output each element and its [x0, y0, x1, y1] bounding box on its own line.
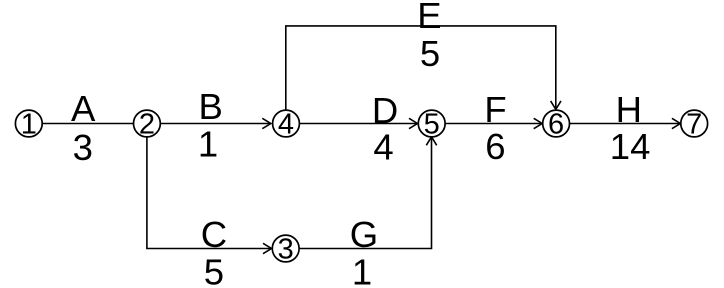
svg-text:H: H	[616, 89, 642, 130]
svg-text:B: B	[199, 86, 223, 127]
svg-text:1: 1	[21, 108, 37, 140]
svg-text:6: 6	[485, 126, 505, 167]
svg-text:1: 1	[198, 124, 218, 165]
svg-text:1: 1	[352, 252, 372, 288]
svg-text:7: 7	[686, 108, 702, 140]
svg-text:D: D	[372, 90, 398, 131]
svg-text:A: A	[71, 88, 96, 129]
svg-text:E: E	[417, 0, 441, 36]
svg-text:G: G	[350, 214, 378, 255]
svg-text:6: 6	[548, 108, 564, 140]
svg-text:3: 3	[73, 127, 93, 168]
svg-text:F: F	[484, 89, 506, 130]
svg-text:C: C	[201, 214, 227, 255]
svg-text:5: 5	[204, 252, 224, 288]
svg-text:5: 5	[424, 108, 440, 140]
svg-text:3: 3	[278, 233, 294, 265]
svg-text:4: 4	[373, 127, 393, 168]
svg-text:5: 5	[420, 33, 440, 74]
svg-text:14: 14	[610, 126, 651, 167]
svg-text:4: 4	[278, 108, 294, 140]
svg-text:2: 2	[139, 108, 155, 140]
